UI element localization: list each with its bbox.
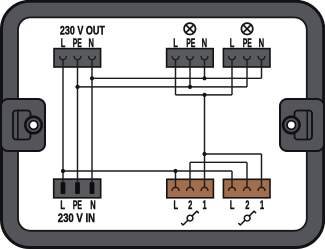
svg-text:L: L — [173, 38, 178, 51]
svg-text:PE: PE — [186, 37, 195, 51]
svg-text:2: 2 — [188, 200, 193, 213]
svg-text:1: 1 — [203, 200, 208, 213]
svg-text:PE: PE — [73, 199, 82, 213]
svg-text:N: N — [259, 38, 264, 51]
svg-text:N: N — [88, 38, 93, 51]
svg-text:1: 1 — [260, 200, 265, 213]
svg-text:2: 2 — [245, 200, 250, 213]
svg-text:230 V IN: 230 V IN — [58, 212, 95, 225]
svg-text:L: L — [230, 200, 235, 213]
svg-text:N: N — [90, 199, 95, 212]
svg-text:L: L — [60, 199, 65, 212]
svg-text:230 V OUT: 230 V OUT — [60, 24, 105, 38]
svg-text:N: N — [202, 38, 207, 51]
svg-text:L: L — [61, 38, 66, 51]
svg-text:L: L — [230, 38, 235, 51]
svg-text:PE: PE — [73, 37, 82, 51]
svg-text:L: L — [174, 200, 179, 213]
svg-text:PE: PE — [243, 37, 252, 51]
